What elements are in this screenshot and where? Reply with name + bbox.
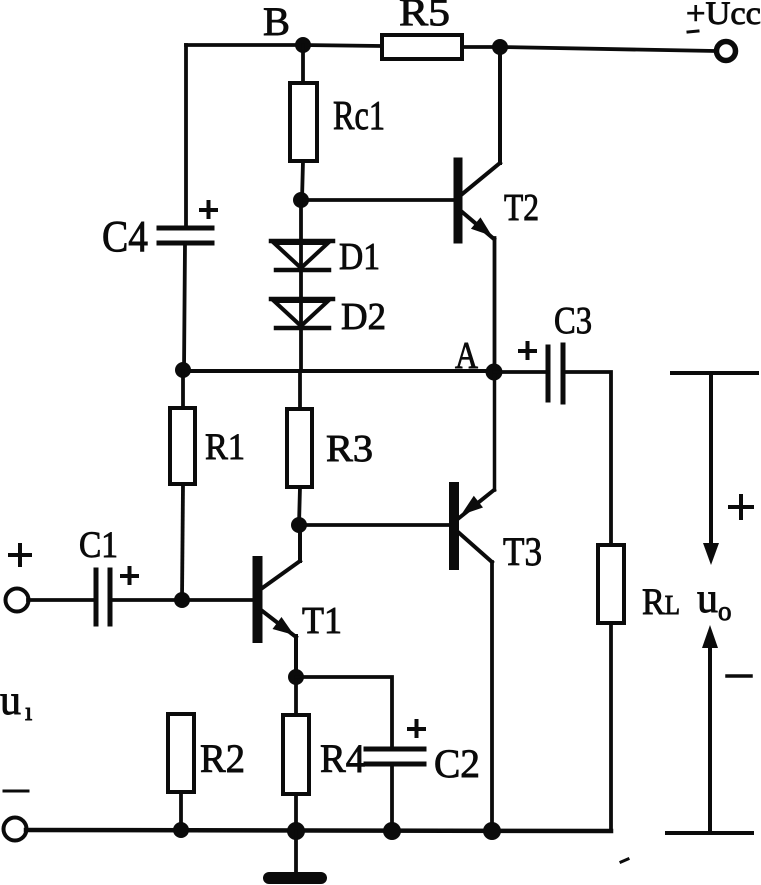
svg-text:R5: R5 — [399, 0, 450, 34]
output arrow up (- side) — [702, 625, 718, 833]
wire bottom rail — [26, 830, 611, 831]
node A junction dot — [486, 364, 503, 381]
node junction dot T1 emitter — [288, 669, 304, 685]
node junction dot mid-left — [175, 362, 191, 378]
diode D1 — [271, 241, 333, 270]
node junction dot C2 at rail — [383, 822, 401, 840]
plus sign of C2 — [409, 721, 424, 736]
capacitor C4 — [159, 228, 212, 243]
output arrow down (+ side) — [703, 375, 719, 565]
terminal +Ucc circle — [717, 42, 736, 61]
svg-text:T3: T3 — [503, 529, 542, 574]
resistor RL — [598, 545, 624, 623]
svg-text:RL: RL — [642, 582, 680, 623]
wire B to R5 — [303, 45, 382, 46]
node junction dot R4/ground at rail — [287, 822, 305, 840]
wire top rail left segment (B to left corner) — [186, 43, 303, 47]
svg-text:C2: C2 — [434, 741, 480, 786]
node B junction dot — [295, 37, 311, 53]
svg-text:D2: D2 — [341, 296, 386, 338]
node junction dot right of R5 — [492, 39, 508, 55]
resistor R5 — [382, 35, 462, 59]
node junction dot below Rc1 — [293, 192, 309, 208]
wire R1 bottom to input node — [182, 484, 183, 600]
resistor Rc1 — [290, 83, 317, 161]
wire T3 base — [299, 523, 450, 527]
wire RL bottom to rail — [609, 623, 613, 831]
node junction dot T3 collector at rail — [483, 822, 501, 840]
svg-text:R3: R3 — [326, 428, 373, 470]
transistor T2 — [458, 48, 500, 239]
wire input terminal to C1 — [28, 598, 93, 602]
svg-text:C1: C1 — [79, 525, 118, 566]
wire R2 bottom to rail — [179, 792, 183, 831]
wire R4 bottom to rail — [294, 794, 298, 831]
wire T2 emitter down to node A — [493, 238, 497, 372]
node junction dot at C1/R1/R2 — [174, 592, 190, 608]
svg-text:Rc1: Rc1 — [333, 92, 385, 138]
svg-text:T2: T2 — [504, 187, 539, 229]
capacitor C1 — [96, 570, 110, 624]
wire T1 emitter to R4 — [294, 677, 298, 715]
node junction dot R2 at rail — [173, 822, 189, 838]
terminal input bottom circle — [4, 818, 27, 841]
wire B down to Rc1 — [301, 45, 305, 83]
transistor T1 — [258, 525, 301, 677]
plus sign input — [10, 545, 30, 565]
wire mid rail (left junction to node A) — [183, 369, 494, 373]
ground — [269, 831, 321, 878]
resistor R1 — [170, 408, 195, 484]
node junction dot below R3 — [291, 517, 307, 533]
minus sign input — [4, 790, 28, 793]
output voltage upper bar — [672, 371, 757, 375]
svg-text:R1: R1 — [205, 427, 245, 468]
plus sign output — [730, 496, 752, 518]
svg-text:T1: T1 — [302, 600, 342, 642]
resistor R4 — [283, 715, 309, 794]
capacitor C2 — [366, 749, 424, 764]
wire C3 to RL corner — [563, 372, 611, 545]
wire R5 to junction — [462, 45, 500, 49]
svg-text:R2: R2 — [200, 736, 245, 781]
transistor T3 — [454, 372, 495, 565]
wire node A to C3 — [494, 370, 548, 374]
wire T1 emitter right to C2 — [296, 677, 392, 747]
wire mid rail to R1 — [181, 371, 185, 408]
terminal input top circle — [6, 589, 29, 612]
wire mid rail to R3 — [298, 371, 302, 409]
wire C4 down to mid rail — [184, 243, 185, 371]
diode D2 — [271, 299, 333, 328]
wire Rc1 junction down through diodes to mid rail — [299, 199, 303, 371]
svg-text:A: A — [455, 335, 478, 377]
plus sign of C4 — [201, 202, 216, 217]
output voltage lower bar — [667, 831, 752, 835]
minus sign output — [727, 674, 751, 678]
svg-text:R4: R4 — [320, 736, 365, 781]
wire Rc1 bottom to junction — [302, 161, 303, 200]
svg-text:D1: D1 — [339, 236, 380, 278]
wire T2 base — [301, 198, 454, 202]
svg-text:uo: uo — [697, 576, 732, 626]
resistor R2 — [168, 714, 194, 792]
speck near bottom right — [621, 859, 628, 862]
plus sign of C3 — [520, 343, 535, 358]
wire R3 bottom to junction — [299, 487, 300, 525]
wire C1 to T1 base — [110, 598, 253, 602]
svg-text:C3: C3 — [554, 300, 592, 342]
resistor R3 — [287, 409, 312, 487]
svg-text:B: B — [263, 0, 290, 44]
svg-text:C4: C4 — [102, 212, 148, 261]
wire left vertical upper (corner down to C4) — [184, 45, 188, 226]
speck under +Ucc — [688, 31, 698, 32]
wire C2 bottom to rail — [390, 764, 394, 831]
wire junction to +Ucc terminal — [500, 47, 714, 51]
svg-text:uı: uı — [0, 678, 32, 726]
plus sign of C1 — [122, 568, 137, 583]
capacitor C3 — [548, 345, 563, 402]
wire T3 collector down to bottom rail — [490, 562, 494, 831]
svg-text:+Ucc: +Ucc — [686, 0, 761, 32]
